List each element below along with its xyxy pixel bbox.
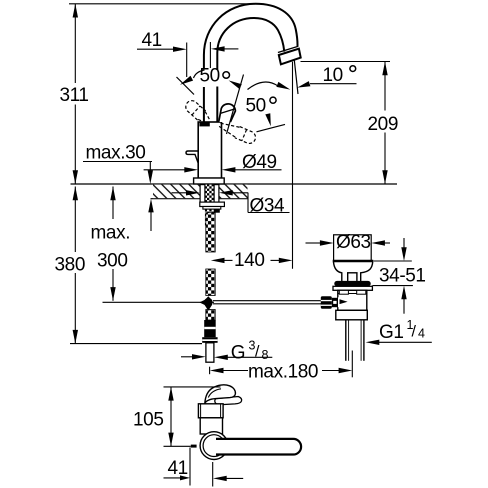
label 50° lower with arrow to phantom (246, 96, 286, 132)
wire deck top line (71, 183, 398, 185)
mounting nut (200, 202, 225, 206)
svg-text:34-51: 34-51 (379, 266, 426, 287)
label 50° upper with rotation arc arrows (180, 66, 290, 90)
spout riser and arc (204, 4, 298, 122)
phantom knob left (50° rotated) (177, 77, 214, 127)
svg-text:41: 41 (142, 30, 162, 51)
svg-text:G: G (231, 343, 245, 364)
front view escutcheon circles (200, 432, 228, 460)
dimension 34-51 (372, 238, 425, 314)
dimension Ø49 (144, 152, 282, 173)
faucet body (194, 122, 225, 184)
dimension Ø63 (306, 232, 391, 253)
pop-up waste body (338, 290, 367, 310)
svg-text:10: 10 (323, 65, 343, 86)
rod ball coupling (321, 296, 338, 309)
washer (203, 207, 221, 210)
label 10° with angle lines (293, 60, 357, 269)
hose compression fitting (202, 320, 217, 362)
waste retaining nut (336, 310, 368, 320)
svg-text:8: 8 (262, 348, 269, 362)
svg-text:50: 50 (246, 96, 266, 117)
svg-text:209: 209 (368, 114, 399, 135)
supply hose braided segments (206, 213, 215, 320)
svg-text:Ø34: Ø34 (250, 196, 286, 217)
dimension Ø34 (172, 190, 290, 216)
tee junction node (199, 296, 212, 311)
hose end tube G3/8 (206, 343, 214, 362)
spout mousseur tip (278, 46, 301, 64)
svg-text:G1: G1 (379, 322, 404, 343)
svg-text:Ø63: Ø63 (336, 232, 371, 253)
wire deck bottom line (151, 198, 249, 200)
phantom knob right (50° rotated) (217, 75, 257, 146)
deck hatch right (219, 185, 248, 199)
svg-text:max.: max. (91, 223, 131, 244)
dimension 209 (368, 62, 399, 185)
wire spout outlet reference line (301, 61, 391, 63)
dimension 41 bottom (164, 448, 244, 487)
svg-text:41: 41 (168, 458, 188, 479)
lever knob (rest position) (219, 104, 236, 122)
svg-text:140: 140 (234, 250, 265, 271)
svg-text:max.30: max.30 (86, 143, 146, 164)
pop-up waste taper and stem (334, 262, 373, 282)
deck hatch left (153, 185, 200, 199)
front view lever handle (205, 385, 242, 405)
dimension max.180 (210, 351, 353, 383)
svg-text:Ø49: Ø49 (242, 152, 277, 173)
pop-up rod (213, 301, 322, 304)
svg-text:380: 380 (55, 255, 86, 276)
pop-up waste plug cylinder (333, 235, 374, 261)
dimension 380 (55, 187, 203, 344)
dimension 311 (60, 4, 89, 184)
svg-text:300: 300 (97, 251, 128, 272)
label G 3/8 (180, 339, 272, 364)
svg-text:max.180: max.180 (248, 361, 318, 382)
faucet economy lever spur (186, 151, 198, 163)
shank through deck (200, 185, 225, 226)
dimension max.30 label (83, 143, 154, 232)
dimension max.300 (91, 187, 215, 303)
wire top reference line (69, 3, 252, 5)
svg-text:311: 311 (60, 85, 89, 106)
dimension 140 (211, 250, 293, 271)
tailpipe G1 1/4 (346, 320, 364, 361)
dimension 105 (133, 387, 221, 448)
dimension 41 top (137, 30, 238, 77)
svg-text:50: 50 (200, 66, 220, 87)
front view body (198, 404, 223, 434)
label G1 1/4 (366, 318, 432, 345)
front view spout bar (216, 439, 301, 455)
svg-text:/: / (412, 324, 417, 341)
svg-text:/: / (255, 344, 260, 361)
svg-text:105: 105 (133, 410, 164, 431)
svg-text:4: 4 (418, 327, 425, 341)
pop-up waste flange (333, 281, 372, 290)
